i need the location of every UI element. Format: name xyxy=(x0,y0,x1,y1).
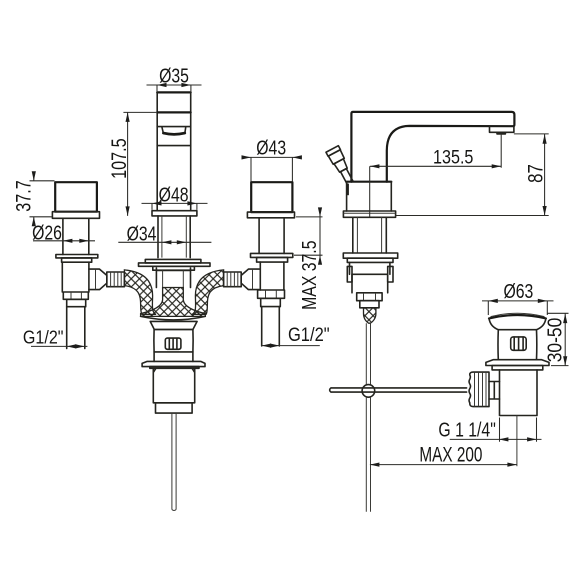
right below-deck body xyxy=(260,262,284,290)
right handle flange xyxy=(247,212,294,218)
right braided hose xyxy=(192,270,224,315)
left handle grip xyxy=(55,182,97,212)
DRAIN GROUP xyxy=(469,313,549,466)
right escutcheon xyxy=(251,253,293,257)
bottom nut xyxy=(156,403,193,413)
right hose ferrule xyxy=(224,272,242,287)
right threaded collar xyxy=(261,298,281,306)
side pull rod upper xyxy=(366,323,370,385)
horizontal lift bar xyxy=(330,388,467,392)
dim Ø43 xyxy=(245,157,298,181)
dim Ø34 xyxy=(118,241,211,243)
spout column xyxy=(157,91,191,93)
left escutcheon xyxy=(56,255,98,258)
svg-text:135.5: 135.5 xyxy=(433,146,474,168)
spout base flange xyxy=(152,211,197,216)
svg-text:Ø26: Ø26 xyxy=(32,222,62,244)
centre escutcheon xyxy=(145,259,201,263)
plug head dome xyxy=(491,313,545,316)
lever handle xyxy=(326,146,356,186)
right hex nut xyxy=(258,290,285,298)
locknut washer xyxy=(142,361,205,366)
svg-text:G1/2": G1/2" xyxy=(23,327,64,348)
lever pivot slot xyxy=(346,184,349,196)
left G1/2 tail tube xyxy=(67,307,85,349)
drain clip detail xyxy=(511,337,527,350)
spout profile xyxy=(351,112,514,182)
side collar xyxy=(360,301,379,308)
dim 37.7 xyxy=(30,173,55,226)
svg-text:Ø43: Ø43 xyxy=(256,137,286,159)
left braided hose xyxy=(124,270,156,315)
left below-deck body xyxy=(62,262,89,292)
centre below-deck body xyxy=(156,268,190,288)
svg-text:G 1 1/4": G 1 1/4" xyxy=(438,419,495,441)
side hex nut xyxy=(357,293,382,301)
trumpet bowl xyxy=(141,316,206,320)
SIDE VIEW GROUP xyxy=(326,112,514,512)
left handle flange xyxy=(52,212,99,219)
svg-text:107.5: 107.5 xyxy=(107,138,131,178)
side escutcheon xyxy=(343,253,397,258)
dim MAX 200 xyxy=(370,464,517,466)
side hose stub xyxy=(364,308,376,323)
mixer body side xyxy=(347,181,392,183)
dim Ø26 xyxy=(33,240,95,242)
lower body xyxy=(153,368,194,403)
dim 30-50 xyxy=(548,313,569,366)
right handle stem xyxy=(259,218,284,254)
side shank xyxy=(353,217,387,253)
left threaded collar xyxy=(67,299,86,306)
drain centreline xyxy=(516,416,518,467)
valve lower section xyxy=(154,352,193,362)
svg-text:Ø34: Ø34 xyxy=(127,223,157,245)
spout arm front lines xyxy=(157,111,191,113)
dim MAX 37.5 xyxy=(294,209,323,263)
FRONT VIEW GROUP xyxy=(52,92,294,510)
svg-text:87: 87 xyxy=(525,164,548,183)
spout shank below flange xyxy=(158,216,190,258)
dim 107.5 xyxy=(123,112,156,215)
plug head sides xyxy=(489,318,546,329)
svg-text:37.7: 37.7 xyxy=(11,180,35,211)
aerator nib xyxy=(497,132,505,134)
dim G1/2 right xyxy=(261,345,320,347)
side below-deck body xyxy=(350,262,390,274)
drain body xyxy=(498,330,537,360)
aerator front xyxy=(162,127,186,133)
svg-text:Ø48: Ø48 xyxy=(159,184,189,206)
left handle stem xyxy=(63,218,89,254)
dim G1/2 left xyxy=(31,345,87,347)
rod ball joint xyxy=(362,385,375,398)
drain flange xyxy=(486,360,549,366)
left hose ferrule xyxy=(107,272,125,287)
dim Ø63 xyxy=(482,301,554,315)
side pull rod lower xyxy=(366,397,370,511)
dim 135.5 xyxy=(370,134,502,218)
left hex nut xyxy=(63,292,88,299)
valve clip detail xyxy=(165,338,181,349)
dim Ø35 xyxy=(147,85,202,91)
svg-text:MAX 37.5: MAX 37.5 xyxy=(298,241,320,310)
dim G 1 1/4 xyxy=(450,418,542,442)
right G1/2 tail tube xyxy=(262,307,280,346)
svg-text:30-50: 30-50 xyxy=(543,318,565,362)
front pull rod xyxy=(172,413,176,510)
dim 87 xyxy=(396,134,549,216)
svg-text:MAX 200: MAX 200 xyxy=(419,442,482,466)
DIMENSIONS GROUP xyxy=(11,65,568,467)
svg-text:Ø35: Ø35 xyxy=(159,65,189,87)
left hose elbow xyxy=(89,269,107,290)
drain tail pipe xyxy=(500,370,538,416)
aerator side xyxy=(490,126,514,132)
body base flange xyxy=(343,211,395,217)
right handle grip xyxy=(251,182,292,212)
dim Ø48 xyxy=(142,203,208,210)
knurled nut xyxy=(469,372,489,407)
svg-text:Ø63: Ø63 xyxy=(503,280,533,302)
svg-text:G1/2": G1/2" xyxy=(288,324,330,345)
right hose elbow xyxy=(241,269,259,290)
valve cylinder xyxy=(154,330,193,352)
centre braid column and skirt xyxy=(141,288,206,317)
rod socket neck xyxy=(489,382,500,400)
